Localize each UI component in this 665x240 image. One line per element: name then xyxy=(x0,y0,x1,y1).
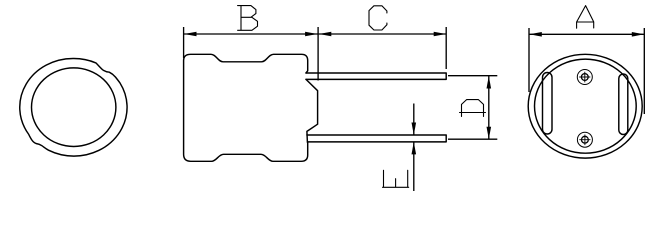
label E (rotated) xyxy=(383,170,409,187)
lead 1 (upper lead) xyxy=(306,73,446,79)
right view: left slot xyxy=(543,73,553,135)
lead 2 (lower lead) xyxy=(307,135,446,142)
arrow C left xyxy=(319,32,332,37)
capacitor body side view outline xyxy=(184,54,308,161)
dimension B extension line left xyxy=(183,27,185,58)
lead position marker bottom (circle with crosshair) xyxy=(577,132,592,147)
dimension line B xyxy=(184,33,318,35)
label D (rotated) xyxy=(460,100,486,117)
right view: inner circle xyxy=(535,59,637,153)
label C xyxy=(369,6,387,30)
dimension D extension line top xyxy=(448,75,497,77)
arrow D top xyxy=(487,76,492,89)
arrow B right xyxy=(305,32,318,37)
dimension E arrow shaft top xyxy=(413,104,415,136)
right view: outer circle xyxy=(528,54,642,158)
label B xyxy=(238,6,258,31)
dimension line C xyxy=(319,33,447,35)
arrow D bottom xyxy=(487,127,492,140)
arrow B left xyxy=(184,32,197,37)
arrow E bottom xyxy=(412,142,417,155)
dimension A extension line left xyxy=(528,28,530,92)
left view: inner circle (can rim) xyxy=(31,68,115,147)
arrow C right xyxy=(434,32,447,37)
rubber bung profile between leads xyxy=(306,79,318,142)
dimension C extension line right xyxy=(445,27,447,69)
left view: capacitor bottom view outer contour with sleeve seam notches xyxy=(20,58,127,156)
arrow E top xyxy=(412,123,417,136)
dimension line D xyxy=(488,76,490,140)
arrow A left xyxy=(529,32,542,37)
label A xyxy=(577,6,594,29)
dimension A extension line right xyxy=(643,28,645,114)
dimension D extension line bottom xyxy=(448,138,497,140)
dimension line A xyxy=(529,33,644,35)
arrow A right xyxy=(632,32,645,37)
lead position marker top (circle with crosshair) xyxy=(577,70,592,85)
shared extension line B/C xyxy=(317,27,319,81)
dimension E arrow shaft bottom xyxy=(413,142,415,191)
right view: right slot xyxy=(619,74,628,135)
